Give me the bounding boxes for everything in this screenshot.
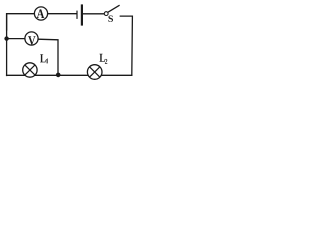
label L2	[100, 54, 108, 64]
lamp L2	[87, 65, 102, 80]
bottom wire	[7, 74, 132, 76]
wire top-left corner to ammeter	[7, 14, 35, 30]
wire ammeter to battery	[48, 13, 77, 15]
ammeter A	[34, 7, 47, 20]
label S	[108, 16, 113, 22]
wire switch to top-right corner	[120, 16, 132, 75]
left rail wire	[6, 14, 8, 76]
label L1	[40, 54, 47, 63]
wire voltmeter to down branch	[38, 39, 58, 75]
lamp L1	[23, 63, 37, 77]
node junction on bottom wire	[56, 73, 61, 78]
wire battery to switch	[83, 13, 104, 15]
voltmeter V	[25, 32, 38, 45]
switch S	[104, 5, 119, 15]
node junction on left rail	[4, 36, 8, 40]
wire junction to voltmeter	[7, 38, 25, 40]
battery cell	[77, 4, 82, 25]
